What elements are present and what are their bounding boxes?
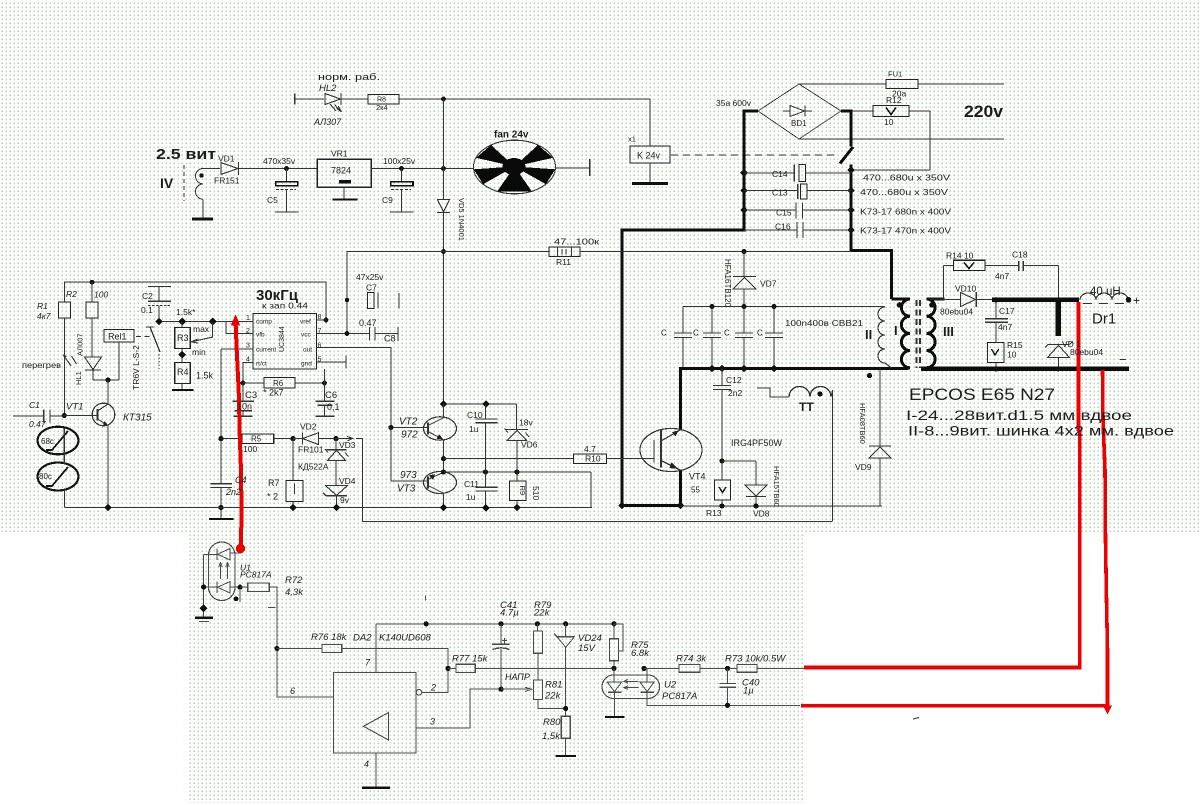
svg-text:VD2: VD2 bbox=[300, 422, 317, 432]
svg-text:5: 5 bbox=[318, 357, 322, 364]
svg-text:−: − bbox=[1119, 352, 1127, 367]
feedback top rail bbox=[376, 623, 623, 625]
wire IV to VD1 bbox=[203, 168, 220, 170]
svg-text:VT4: VT4 bbox=[689, 472, 706, 482]
svg-text:current: current bbox=[256, 347, 276, 354]
svg-text:ТТ: ТТ bbox=[799, 400, 814, 414]
resistor R1 bbox=[59, 302, 71, 318]
red link plus rail to R73 bbox=[804, 302, 1080, 668]
U2 left photodiode bbox=[613, 668, 615, 682]
base drive vertical bbox=[390, 428, 392, 482]
svg-text:4,3k: 4,3k bbox=[285, 587, 304, 598]
svg-text:0,1: 0,1 bbox=[327, 402, 340, 412]
top supply wire bbox=[444, 403, 517, 405]
IGBT VT4 bbox=[640, 429, 702, 472]
HL2 indicator branch: left terminal bbox=[294, 94, 296, 105]
mains switch blade bbox=[840, 147, 853, 164]
svg-text:rt/ct: rt/ct bbox=[256, 361, 267, 368]
ground (K24v) bbox=[632, 182, 668, 185]
svg-text:3: 3 bbox=[430, 717, 435, 727]
resistor R15 bbox=[988, 343, 1005, 363]
transformer secondary winding III bbox=[927, 299, 945, 368]
current transformer TT bbox=[757, 388, 789, 397]
zener VD11 80ebu04 bbox=[1045, 342, 1073, 348]
svg-text:6.8k: 6.8k bbox=[631, 648, 650, 659]
svg-text:R72: R72 bbox=[285, 575, 303, 586]
svg-text:VT1: VT1 bbox=[66, 402, 83, 413]
svg-text:R12: R12 bbox=[886, 95, 902, 105]
plus output thick rail bbox=[992, 298, 1079, 302]
capacitor C2 bbox=[148, 286, 171, 288]
svg-text:C: C bbox=[661, 329, 667, 338]
svg-text:IRG4PF50W: IRG4PF50W bbox=[731, 438, 783, 448]
thermistor 2 bbox=[38, 463, 79, 491]
fan right terminal bbox=[556, 167, 589, 169]
svg-text:VD3: VD3 bbox=[339, 440, 356, 450]
winding IV dashed boundary bbox=[183, 165, 185, 201]
wire VR1 out bbox=[371, 168, 474, 170]
pin4 rt/ct wire bbox=[243, 363, 253, 384]
LED HL1 bbox=[85, 357, 102, 370]
pin3 sense column bbox=[220, 349, 222, 483]
resistor R75 6.8k + wiper bbox=[613, 624, 615, 639]
svg-text:x1: x1 bbox=[628, 135, 636, 144]
svg-text:min: min bbox=[192, 347, 206, 357]
U1 light arrows bbox=[219, 563, 223, 580]
vref top rail bbox=[64, 282, 326, 320]
winding III top feed to rectifier bbox=[930, 266, 944, 300]
svg-text:47x25v: 47x25v bbox=[356, 272, 384, 282]
transistor VT3 (973) bbox=[424, 472, 457, 494]
optocoupler U2 PC817A body bbox=[602, 675, 660, 699]
svg-text:C5: C5 bbox=[267, 195, 278, 205]
capacitor C13 row bbox=[744, 190, 798, 192]
resistor R12 (box V) bbox=[841, 110, 873, 112]
pin8 vref wire bbox=[317, 319, 327, 321]
lower node wire bbox=[444, 471, 592, 473]
svg-text:4: 4 bbox=[364, 759, 369, 769]
capacitor C9 bbox=[401, 169, 403, 182]
ground (winding IV) bbox=[192, 218, 213, 221]
svg-text:100n400в CBB21: 100n400в CBB21 bbox=[785, 318, 863, 328]
resistor R5 bbox=[221, 438, 242, 440]
svg-text:R15: R15 bbox=[1007, 340, 1023, 350]
svg-text:R81: R81 bbox=[545, 680, 562, 691]
svg-text:C17: C17 bbox=[999, 306, 1015, 316]
svg-text:vfb: vfb bbox=[256, 332, 265, 339]
fuse FU1 bbox=[886, 80, 918, 89]
svg-text:2n2: 2n2 bbox=[728, 388, 742, 398]
transformer core bbox=[916, 300, 918, 368]
svg-text:vcc: vcc bbox=[301, 332, 312, 339]
svg-text:VD9: VD9 bbox=[855, 462, 872, 472]
svg-text:FU1: FU1 bbox=[888, 70, 902, 79]
diode VD2 FR101 bbox=[293, 438, 303, 440]
pin5 gnd wire bbox=[317, 361, 347, 363]
main ground rail bbox=[64, 507, 592, 509]
optocoupler U1 PC817A body bbox=[209, 542, 236, 601]
svg-text:7824: 7824 bbox=[331, 166, 351, 176]
dotted scan background upper block bbox=[0, 0, 1200, 533]
pin3 current wire bbox=[221, 348, 253, 350]
svg-text:VD7: VD7 bbox=[760, 279, 777, 289]
svg-text:1µ: 1µ bbox=[743, 686, 754, 697]
svg-text:C15: C15 bbox=[776, 208, 792, 218]
svg-text:C18: C18 bbox=[1012, 250, 1028, 260]
svg-text:10: 10 bbox=[1007, 350, 1017, 360]
stray marks bbox=[234, 596, 239, 601]
svg-text:DA2: DA2 bbox=[353, 633, 372, 644]
thick drop to IGBT collector bbox=[679, 369, 682, 430]
zener VD3 КД522А bbox=[333, 436, 338, 441]
svg-text:0.47: 0.47 bbox=[359, 318, 377, 328]
capacitor C11 1u bbox=[476, 486, 498, 488]
svg-text:R4: R4 bbox=[177, 367, 189, 377]
svg-text:I: I bbox=[894, 323, 898, 338]
bridge rectifier BD1 diamond bbox=[758, 84, 841, 139]
svg-text:4.7µ: 4.7µ bbox=[500, 608, 519, 619]
svg-text:R9: R9 bbox=[518, 486, 527, 496]
svg-text:out: out bbox=[303, 347, 312, 354]
thermal switch blade bbox=[146, 326, 154, 328]
svg-text:I-24...28вит.d1.5 мм вдвое: I-24...28вит.d1.5 мм вдвое bbox=[906, 408, 1132, 423]
svg-text:VD1: VD1 bbox=[218, 154, 235, 164]
capacitor C18 bbox=[1018, 261, 1020, 271]
diode VD5 1N4001 bbox=[438, 200, 450, 213]
svg-text:470...680u x 350V: 470...680u x 350V bbox=[863, 173, 950, 183]
svg-text:перегрев: перегрев bbox=[22, 361, 61, 370]
snubber node row bbox=[683, 306, 885, 308]
svg-text:R2: R2 bbox=[66, 289, 77, 299]
power ground rail thin bbox=[681, 505, 882, 507]
U1 left column to ground bbox=[203, 555, 205, 618]
resistor R14 bbox=[944, 265, 954, 267]
svg-text:FR151: FR151 bbox=[214, 176, 240, 186]
capacitor C41 4.7u bbox=[500, 624, 502, 644]
capacitor C7 47x25v bbox=[368, 293, 375, 309]
svg-text:VD10: VD10 bbox=[955, 284, 977, 294]
svg-text:80с: 80с bbox=[39, 472, 52, 481]
svg-text:6: 6 bbox=[318, 343, 322, 350]
svg-text:972: 972 bbox=[401, 430, 418, 441]
resistor R77 15k bbox=[445, 666, 450, 671]
winding IV coil bbox=[196, 169, 204, 200]
resistor R73 10k/0.5W bbox=[725, 666, 730, 671]
thick bus: below switch down to transformer feed bbox=[851, 165, 892, 300]
svg-text:C8: C8 bbox=[384, 334, 396, 344]
svg-text:IV: IV bbox=[160, 175, 174, 191]
svg-text:R1: R1 bbox=[37, 301, 48, 311]
svg-text:к зап 0.44: к зап 0.44 bbox=[262, 302, 309, 311]
dashed relay link bbox=[136, 336, 150, 338]
svg-text:fan 24v: fan 24v bbox=[494, 130, 529, 141]
svg-text:PC817A: PC817A bbox=[662, 691, 697, 702]
svg-text:4n7: 4n7 bbox=[998, 322, 1012, 332]
svg-text:80ebu04: 80ebu04 bbox=[940, 307, 973, 317]
thick primary bottom rail bbox=[679, 367, 908, 370]
aux winding II bbox=[878, 307, 892, 368]
svg-text:R77 15k: R77 15k bbox=[452, 654, 489, 665]
svg-text:VT2: VT2 bbox=[399, 417, 418, 428]
svg-text:R14 10: R14 10 bbox=[946, 251, 974, 261]
dotted scan background lower block bbox=[187, 533, 803, 803]
resistor R11 row bbox=[347, 252, 549, 334]
zener VD6 18v bbox=[516, 404, 518, 429]
snubber capacitor column 2 bbox=[711, 307, 713, 333]
snubber capacitor column 1 bbox=[682, 307, 684, 333]
resistor R74 3k bbox=[644, 667, 679, 669]
svg-text:4к7: 4к7 bbox=[37, 311, 51, 321]
svg-text:gnd: gnd bbox=[301, 361, 312, 368]
svg-text:15V: 15V bbox=[578, 643, 597, 654]
svg-text:R7: R7 bbox=[268, 478, 280, 488]
diode VD9 HFA08TB60 bbox=[879, 369, 881, 447]
DA2 pin4 ground bbox=[375, 753, 377, 787]
diode VD8 HFA15TB60 bbox=[722, 460, 756, 462]
svg-text:R73 10k/0.5W: R73 10k/0.5W bbox=[725, 654, 786, 665]
dashed link K24v to mains switch bbox=[671, 154, 836, 156]
regulator VR1 7824 box bbox=[317, 159, 371, 187]
svg-text:510: 510 bbox=[531, 486, 541, 500]
svg-text:9v: 9v bbox=[340, 495, 350, 505]
svg-text:max: max bbox=[193, 324, 210, 334]
svg-text:C7: C7 bbox=[366, 283, 377, 293]
svg-text:HL2: HL2 bbox=[319, 83, 337, 94]
svg-text:КТ315: КТ315 bbox=[123, 413, 152, 424]
svg-text:K73-17 680n x 400V: K73-17 680n x 400V bbox=[860, 207, 951, 217]
svg-text:C16: C16 bbox=[775, 222, 791, 232]
svg-text:TR6V L-S-2: TR6V L-S-2 bbox=[131, 345, 141, 390]
svg-text:100: 100 bbox=[243, 444, 257, 454]
svg-text:+: + bbox=[1133, 294, 1140, 308]
svg-text:III: III bbox=[943, 324, 954, 339]
U1 LED top bbox=[216, 549, 218, 561]
svg-text:C: C bbox=[724, 329, 730, 338]
diode VD1 FR151 bbox=[221, 163, 238, 175]
svg-text:1.5k: 1.5k bbox=[196, 371, 214, 381]
thick emitter bottom rail bbox=[622, 504, 681, 507]
trimmer R81 22k bbox=[533, 680, 542, 699]
resistor R2 bbox=[91, 282, 93, 302]
diode inside BD1 bbox=[790, 106, 805, 117]
svg-text:22k: 22k bbox=[533, 608, 551, 619]
svg-text:1u: 1u bbox=[466, 492, 476, 502]
ground (R4) bbox=[172, 389, 194, 391]
svg-text:0.1: 0.1 bbox=[141, 305, 153, 315]
svg-text:HL1: HL1 bbox=[74, 371, 83, 385]
ground (VR1) bbox=[333, 198, 358, 200]
op-amp DA2 K140UD608 box bbox=[334, 673, 417, 754]
red link minus rail to bottom wire bbox=[801, 370, 1108, 706]
thermistor 1 bbox=[38, 427, 79, 455]
U2 right LED bbox=[641, 666, 646, 671]
resistor R9 510 bbox=[510, 481, 527, 501]
aux winding return rail bbox=[362, 521, 833, 523]
svg-text:* 2k7: * 2k7 bbox=[263, 388, 284, 398]
snubber capacitor column 3 bbox=[743, 307, 745, 333]
svg-text:* 2: * 2 bbox=[267, 492, 278, 502]
svg-text:R10: R10 bbox=[585, 454, 601, 464]
svg-text:VT3: VT3 bbox=[397, 484, 416, 495]
svg-text:4: 4 bbox=[246, 357, 250, 364]
svg-text:EPCOS E65 N27: EPCOS E65 N27 bbox=[909, 385, 1055, 404]
resistor R13 bbox=[719, 458, 724, 463]
thick stub down to VD11 bbox=[1056, 300, 1062, 336]
pin7 vcc wire bbox=[317, 333, 370, 335]
svg-text:R11: R11 bbox=[556, 257, 571, 267]
svg-text:R74 3k: R74 3k bbox=[676, 654, 707, 665]
svg-text:R5: R5 bbox=[251, 435, 262, 444]
svg-text:R80: R80 bbox=[543, 717, 561, 728]
DA2 pin3 bbox=[416, 689, 501, 728]
ground (R80) bbox=[556, 755, 577, 757]
capacitor C5 bbox=[286, 169, 288, 182]
svg-text:II-8...9вит. шинка 4x2 мм. вдв: II-8...9вит. шинка 4x2 мм. вдвое bbox=[908, 424, 1174, 439]
resistor R4 bbox=[175, 363, 191, 384]
resistor R6 bbox=[241, 381, 246, 386]
secondary bottom thick rail (minus) bbox=[921, 367, 1129, 371]
svg-text:4.7: 4.7 bbox=[584, 444, 596, 454]
svg-text:R76 18k: R76 18k bbox=[311, 632, 348, 643]
capacitor C3 10n bbox=[242, 383, 244, 401]
svg-text:2n2: 2n2 bbox=[225, 487, 241, 497]
resistor R8 bbox=[368, 95, 399, 105]
wire bridge top to FU1 bbox=[799, 83, 886, 85]
resistor R72 4,3k bbox=[237, 585, 242, 590]
svg-text:C4: C4 bbox=[235, 475, 247, 485]
svg-text:10: 10 bbox=[884, 117, 894, 127]
wire down to K24v bbox=[649, 99, 651, 146]
resistor R80 1,5k bbox=[561, 716, 570, 738]
capacitor C4 2n2 bbox=[211, 483, 233, 485]
capacitor C16 row bbox=[744, 229, 797, 231]
wire bridge bottom 220v bbox=[799, 138, 1004, 140]
svg-text:18v: 18v bbox=[519, 418, 533, 428]
LED HL2 bbox=[325, 94, 341, 105]
svg-text:VD4: VD4 bbox=[339, 476, 356, 486]
svg-text:47...100к: 47...100к bbox=[554, 237, 599, 247]
capacitor C8 0.47 bbox=[369, 327, 371, 341]
wire VD1 to VR1 bbox=[239, 168, 318, 170]
transformer primary winding I bbox=[892, 299, 911, 368]
diode VD10 80ebu04 bbox=[944, 299, 961, 301]
svg-text:BD1: BD1 bbox=[791, 119, 807, 128]
transistor VT1 KT315 bbox=[92, 403, 115, 426]
svg-text:C: C bbox=[693, 329, 699, 338]
svg-text:HFA16TB120: HFA16TB120 bbox=[723, 259, 732, 308]
svg-text:7: 7 bbox=[318, 328, 322, 335]
resistor R79 22k bbox=[533, 631, 542, 653]
fan 24v motor bbox=[474, 140, 556, 194]
svg-text:VD5 1N4001: VD5 1N4001 bbox=[457, 198, 466, 241]
svg-text:VD8: VD8 bbox=[753, 509, 770, 519]
thick bus: bridge left vertex down bbox=[622, 111, 758, 506]
svg-text:80ebu04: 80ebu04 bbox=[1070, 347, 1103, 357]
choke Dr1 40uH bbox=[1080, 293, 1128, 300]
relay Rel1 bbox=[104, 330, 134, 343]
light arrows (перегрев) bbox=[64, 355, 77, 366]
capacitor C17 bbox=[995, 300, 997, 319]
svg-text:C3: C3 bbox=[245, 390, 257, 401]
svg-text:C9: C9 bbox=[382, 195, 393, 205]
U1 photodiode bottom bbox=[216, 582, 218, 594]
svg-text:АЛ307: АЛ307 bbox=[313, 117, 342, 127]
svg-text:C2: C2 bbox=[142, 291, 153, 301]
svg-text:HFA15TB60: HFA15TB60 bbox=[772, 466, 781, 507]
thick bus: bridge right vertex down to switch bbox=[841, 111, 851, 147]
svg-text:220v: 220v bbox=[964, 102, 1004, 121]
svg-text:C: C bbox=[757, 329, 763, 338]
svg-text:КД522А: КД522А bbox=[298, 462, 329, 472]
svg-text:35a 600v: 35a 600v bbox=[716, 98, 752, 108]
svg-text:R13: R13 bbox=[706, 508, 722, 518]
svg-text:2: 2 bbox=[246, 328, 250, 335]
red link comp pin to U1 bbox=[236, 319, 242, 546]
pin6 out wire bbox=[317, 348, 429, 482]
diode VD7 HFA16TB120 bbox=[743, 252, 745, 277]
capacitor C1 bbox=[13, 415, 44, 417]
relay coil K24v box bbox=[630, 146, 670, 163]
resistor R10 4.7 bbox=[574, 454, 607, 464]
op-amp U3 UC3844 box bbox=[253, 314, 317, 370]
svg-text:8: 8 bbox=[318, 314, 322, 321]
svg-text:UC3844: UC3844 bbox=[279, 326, 286, 352]
U2 light arrows bbox=[624, 680, 639, 684]
snubber capacitor column 4 bbox=[773, 307, 775, 333]
svg-text:K140UD608: K140UD608 bbox=[379, 633, 431, 644]
svg-text:R3: R3 bbox=[177, 333, 189, 343]
svg-text:55: 55 bbox=[691, 486, 700, 495]
svg-text:C14: C14 bbox=[772, 169, 788, 179]
svg-text:K 24v: K 24v bbox=[637, 151, 661, 161]
svg-text:vref: vref bbox=[300, 319, 311, 326]
ground (C4) bbox=[209, 518, 234, 520]
svg-text:1: 1 bbox=[246, 315, 250, 322]
zener VD24 15V bbox=[565, 624, 567, 637]
svg-text:C6: C6 bbox=[325, 390, 337, 401]
svg-text:1u: 1u bbox=[469, 424, 479, 434]
svg-text:comp: comp bbox=[256, 319, 272, 326]
svg-text:U2: U2 bbox=[664, 680, 677, 691]
resistor R76 18k bbox=[277, 648, 322, 650]
svg-text:2: 2 bbox=[430, 683, 436, 693]
svg-text:VD6: VD6 bbox=[521, 440, 538, 450]
capacitor C40 1u bbox=[727, 668, 729, 683]
svg-text:HFA08TB60: HFA08TB60 bbox=[858, 403, 867, 444]
resistor R7 bbox=[292, 439, 294, 481]
capacitor C10 1u bbox=[485, 404, 487, 419]
svg-text:973: 973 bbox=[400, 470, 417, 481]
svg-text:6: 6 bbox=[290, 686, 295, 696]
svg-text:PC817A: PC817A bbox=[240, 570, 272, 580]
junction dots on buses bbox=[740, 166, 855, 234]
R81 wiper arrow (НАПР) bbox=[501, 687, 531, 691]
svg-text:C11: C11 bbox=[464, 479, 479, 489]
comp wire (pin1 row) bbox=[157, 321, 253, 323]
svg-text:100x25v: 100x25v bbox=[383, 156, 416, 166]
pin2 vfb wire bbox=[226, 322, 253, 334]
svg-text:НАПР: НАПР bbox=[505, 672, 530, 682]
svg-text:100: 100 bbox=[94, 290, 108, 300]
svg-text:K73-17 470n x 400V: K73-17 470n x 400V bbox=[860, 226, 951, 236]
svg-text:Dr1: Dr1 bbox=[1092, 311, 1116, 328]
svg-text:2к4: 2к4 bbox=[376, 103, 388, 112]
svg-text:АЛ007: АЛ007 bbox=[76, 333, 85, 356]
svg-text:норм. раб.: норм. раб. bbox=[318, 72, 380, 83]
svg-text:470x35v: 470x35v bbox=[263, 156, 296, 166]
potentiometer R3 bbox=[181, 322, 183, 328]
svg-text:40 uH: 40 uH bbox=[1090, 286, 1121, 298]
